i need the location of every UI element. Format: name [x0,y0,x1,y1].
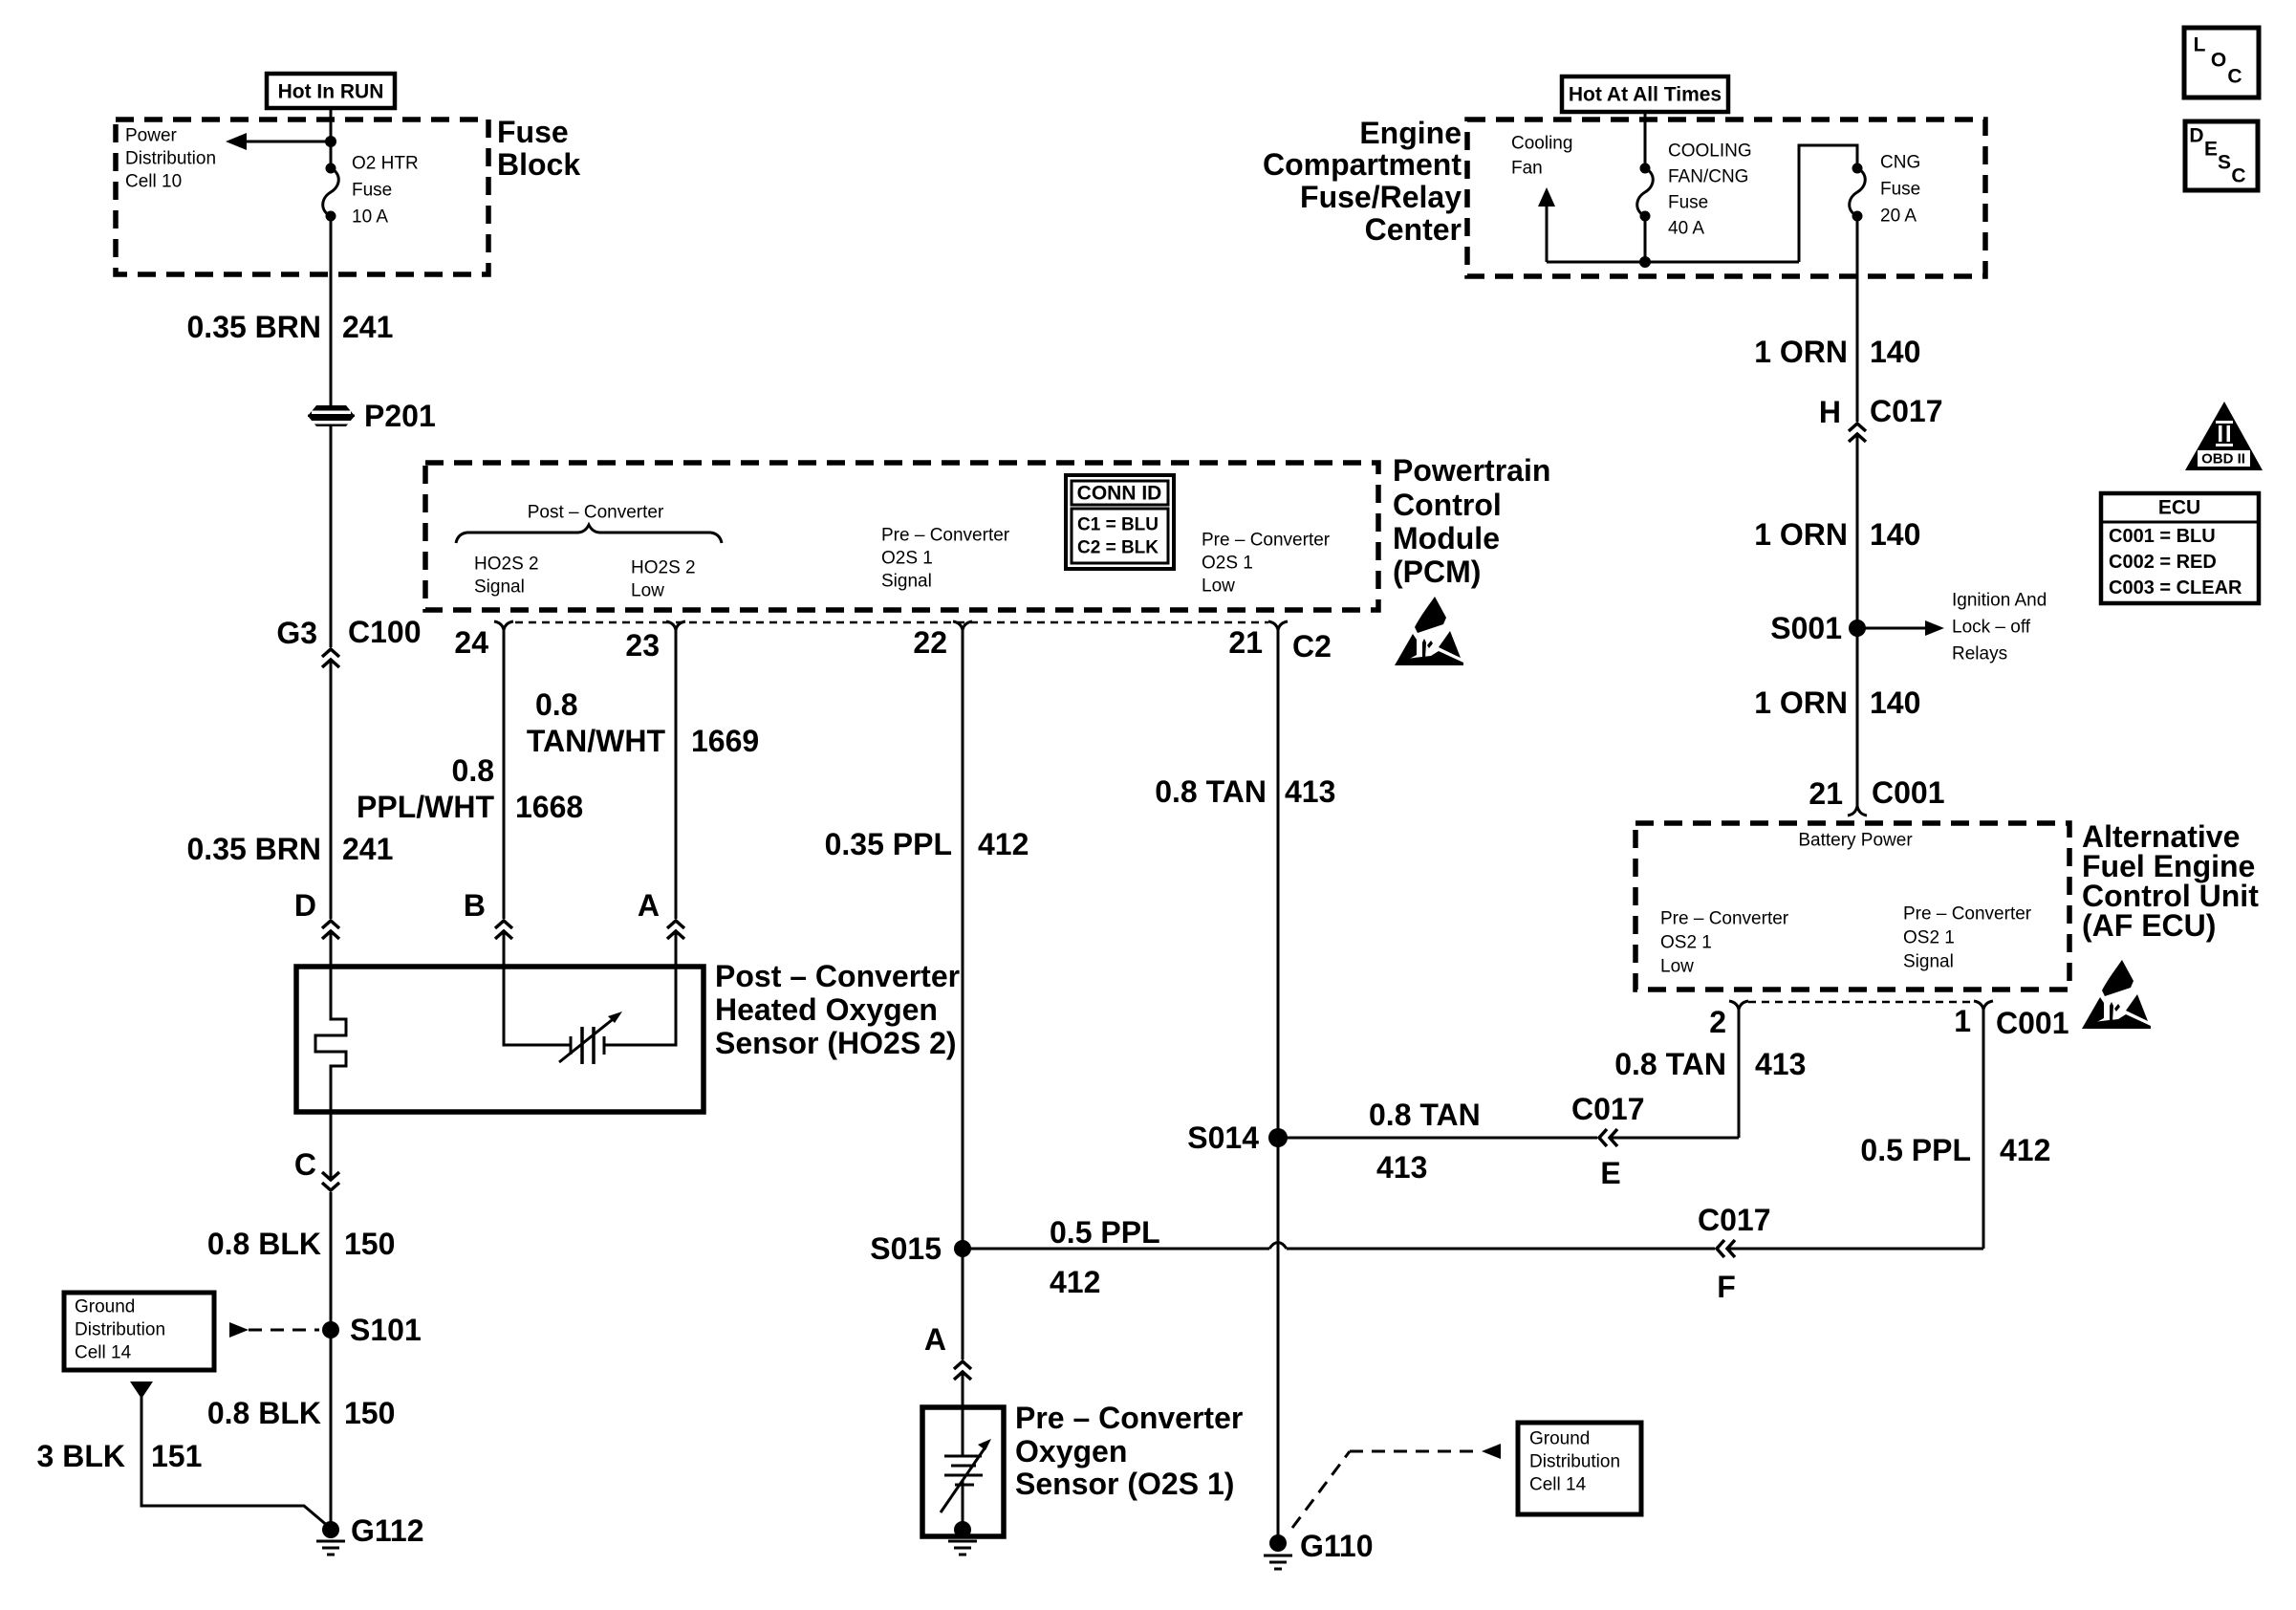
svg-text:D: D [2189,125,2203,147]
svg-text:E: E [1600,1156,1620,1190]
svg-text:FAN/CNG: FAN/CNG [1668,167,1748,187]
svg-text:Low: Low [1202,577,1235,597]
svg-text:0.8 BLK: 0.8 BLK [207,1396,321,1430]
svg-text:ECU: ECU [2158,497,2200,519]
svg-text:(AF ECU): (AF ECU) [2082,908,2216,943]
svg-text:20 A: 20 A [1880,207,1917,227]
svg-text:S: S [2218,152,2231,174]
svg-text:Cell 10: Cell 10 [125,172,182,192]
svg-text:3 BLK: 3 BLK [37,1439,125,1473]
svg-text:D: D [294,888,316,923]
svg-text:O2 HTR: O2 HTR [352,154,419,174]
svg-text:C2 = BLK: C2 = BLK [1077,538,1159,558]
svg-text:Block: Block [497,147,580,182]
svg-text:Pre – Converter: Pre – Converter [1660,909,1789,929]
svg-text:0.8: 0.8 [535,687,577,722]
svg-text:24: 24 [454,625,488,660]
svg-text:Ignition And: Ignition And [1952,591,2047,611]
svg-text:G3: G3 [276,616,317,650]
svg-text:Pre – Converter: Pre – Converter [1202,531,1331,551]
svg-text:Powertrain: Powertrain [1393,453,1550,488]
svg-text:C: C [2231,165,2245,187]
svg-text:Control: Control [1393,488,1502,522]
svg-text:21: 21 [1228,625,1263,660]
svg-text:Pre – Converter: Pre – Converter [1015,1401,1243,1435]
svg-text:Fuse: Fuse [352,181,392,201]
svg-text:Fuse: Fuse [1668,193,1708,213]
svg-text:S001: S001 [1770,611,1842,645]
svg-text:C001 = BLU: C001 = BLU [2109,526,2216,547]
svg-text:E: E [2204,139,2218,161]
svg-text:A: A [924,1322,946,1357]
svg-text:H: H [1819,395,1841,429]
svg-text:(PCM): (PCM) [1393,555,1481,589]
svg-text:Cell 14: Cell 14 [1529,1475,1587,1495]
svg-text:413: 413 [1285,774,1335,809]
svg-text:241: 241 [342,310,393,344]
svg-text:CNG: CNG [1880,153,1920,173]
svg-text:0.35 BRN: 0.35 BRN [187,832,322,866]
svg-text:1: 1 [1954,1004,1971,1038]
svg-text:412: 412 [1050,1265,1100,1299]
svg-text:Fuse/Relay: Fuse/Relay [1300,180,1462,214]
svg-text:1 ORN: 1 ORN [1754,685,1848,720]
svg-text:Lock – off: Lock – off [1952,618,2031,638]
svg-text:COOLING: COOLING [1668,141,1752,162]
svg-text:Oxygen: Oxygen [1015,1434,1127,1469]
svg-text:G112: G112 [351,1513,424,1548]
svg-text:OS2 1: OS2 1 [1903,928,1955,948]
svg-text:Module: Module [1393,521,1500,555]
svg-text:Distribution: Distribution [125,149,216,169]
svg-text:Post – Converter: Post – Converter [715,959,960,993]
svg-text:Pre – Converter: Pre – Converter [1903,904,2032,925]
svg-text:140: 140 [1870,685,1920,720]
svg-text:150: 150 [344,1396,395,1430]
svg-text:0.8 BLK: 0.8 BLK [207,1227,321,1261]
svg-text:TAN/WHT: TAN/WHT [527,724,666,758]
svg-text:PPL/WHT: PPL/WHT [357,790,494,824]
svg-text:Relays: Relays [1952,644,2007,664]
svg-text:Compartment: Compartment [1263,147,1462,182]
svg-text:C001: C001 [1996,1006,2069,1040]
svg-text:Fuse: Fuse [497,115,569,149]
svg-text:O: O [2211,50,2226,72]
svg-text:P201: P201 [364,399,436,433]
svg-text:Hot At All Times: Hot At All Times [1569,84,1722,106]
svg-text:0.8: 0.8 [452,753,494,788]
svg-text:Sensor (HO2S 2): Sensor (HO2S 2) [715,1026,957,1060]
svg-text:Hot In RUN: Hot In RUN [278,81,384,103]
svg-text:Cooling: Cooling [1511,134,1572,154]
svg-text:C100: C100 [348,615,422,649]
svg-text:1 ORN: 1 ORN [1754,335,1848,369]
svg-text:0.35 BRN: 0.35 BRN [187,310,322,344]
svg-text:Center: Center [1365,212,1462,247]
svg-text:Signal: Signal [1903,952,1954,972]
svg-text:C017: C017 [1698,1203,1771,1237]
svg-text:40 A: 40 A [1668,219,1704,239]
svg-text:Sensor (O2S 1): Sensor (O2S 1) [1015,1467,1234,1501]
svg-text:0.8 TAN: 0.8 TAN [1155,774,1267,809]
svg-text:B: B [464,888,486,923]
svg-text:0.5 PPL: 0.5 PPL [1050,1215,1160,1250]
svg-text:S014: S014 [1187,1120,1259,1155]
svg-text:Fuse: Fuse [1880,180,1920,200]
svg-text:G110: G110 [1300,1529,1374,1563]
svg-text:413: 413 [1376,1150,1427,1185]
svg-text:Signal: Signal [881,572,932,592]
svg-text:Distribution: Distribution [1529,1452,1620,1472]
svg-text:O2S 1: O2S 1 [1202,554,1253,574]
svg-text:Heated Oxygen: Heated Oxygen [715,992,938,1027]
svg-text:Low: Low [631,581,664,601]
svg-text:140: 140 [1870,517,1920,552]
svg-text:150: 150 [344,1227,395,1261]
svg-text:2: 2 [1709,1005,1726,1039]
svg-text:S015: S015 [870,1231,942,1266]
svg-text:21: 21 [1809,776,1843,811]
svg-text:F: F [1717,1270,1736,1304]
svg-text:C017: C017 [1870,394,1943,428]
svg-text:A: A [638,888,660,923]
svg-text:412: 412 [978,827,1029,861]
svg-text:C001: C001 [1872,775,1945,810]
svg-text:413: 413 [1755,1047,1806,1081]
svg-text:Fan: Fan [1511,159,1543,179]
svg-text:Engine: Engine [1359,116,1462,150]
svg-text:L: L [2194,34,2206,56]
svg-text:C002 = RED: C002 = RED [2109,552,2217,573]
svg-text:Distribution: Distribution [75,1320,165,1340]
svg-text:1668: 1668 [515,790,583,824]
svg-text:OS2 1: OS2 1 [1660,933,1712,953]
svg-text:Signal: Signal [474,577,525,598]
svg-text:1 ORN: 1 ORN [1754,517,1848,552]
svg-text:OBD II: OBD II [2201,451,2245,468]
svg-text:241: 241 [342,832,393,866]
svg-text:C003 = CLEAR: C003 = CLEAR [2109,577,2242,598]
svg-text:10 A: 10 A [352,207,388,228]
svg-text:0.8 TAN: 0.8 TAN [1614,1047,1726,1081]
svg-text:C017: C017 [1571,1092,1645,1126]
svg-text:Post – Converter: Post – Converter [528,503,664,523]
svg-text:Power: Power [125,126,178,146]
svg-text:Low: Low [1660,957,1694,977]
svg-text:0.8 TAN: 0.8 TAN [1369,1098,1481,1132]
svg-text:23: 23 [625,628,660,663]
svg-text:0.5 PPL: 0.5 PPL [1860,1133,1971,1167]
svg-text:C: C [2227,66,2242,88]
svg-text:Cell 14: Cell 14 [75,1343,132,1363]
svg-text:Battery Power: Battery Power [1798,831,1913,851]
svg-text:Ground: Ground [75,1297,135,1317]
svg-text:Pre – Converter: Pre – Converter [881,526,1010,546]
svg-text:140: 140 [1870,335,1920,369]
svg-text:C2: C2 [1292,629,1332,664]
svg-text:0.35 PPL: 0.35 PPL [825,827,952,861]
svg-text:151: 151 [151,1439,202,1473]
svg-text:C1 = BLU: C1 = BLU [1077,515,1159,535]
svg-text:CONN ID: CONN ID [1077,483,1162,505]
svg-text:Ground: Ground [1529,1429,1590,1449]
svg-text:O2S 1: O2S 1 [881,549,933,569]
svg-text:1669: 1669 [691,724,759,758]
svg-text:C: C [294,1147,316,1182]
svg-text:22: 22 [913,625,947,660]
svg-text:412: 412 [2000,1133,2050,1167]
svg-text:S101: S101 [350,1313,422,1347]
svg-text:HO2S 2: HO2S 2 [631,558,696,578]
svg-text:HO2S 2: HO2S 2 [474,555,539,575]
